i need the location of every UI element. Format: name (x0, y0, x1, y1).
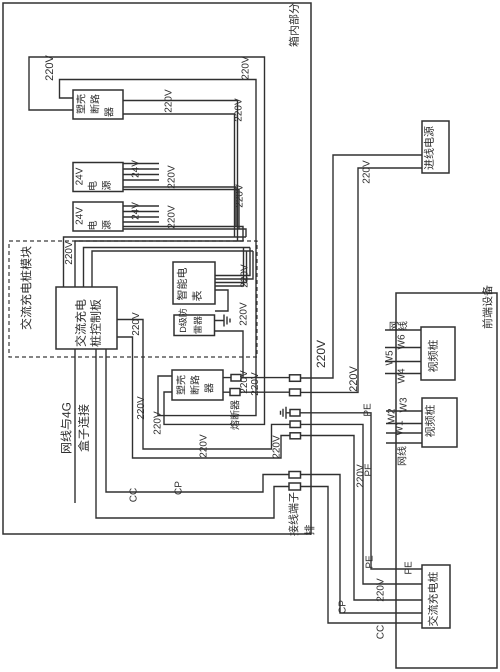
wire T1 to incoming supply (301, 155, 423, 378)
svg-text:W5: W5 (385, 350, 396, 365)
svg-text:220V: 220V (136, 396, 147, 420)
svg-text:网线与4G: 网线与4G (60, 402, 74, 454)
svg-text:24V: 24V (75, 207, 86, 225)
svg-text:塑壳: 塑壳 (76, 94, 88, 114)
24V supply PSU2 (73, 202, 123, 231)
video pile VP2 stubs (386, 411, 422, 443)
front-end equipment box 前端设备 (396, 293, 497, 668)
controller CC wire via T7 (96, 349, 289, 518)
svg-text:220V: 220V (167, 165, 178, 189)
svg-text:电: 电 (87, 221, 99, 231)
svg-text:交流充电桩模块: 交流充电桩模块 (20, 246, 34, 330)
enclosure box 箱内部分 (3, 3, 311, 534)
svg-text:220V: 220V (348, 365, 360, 391)
svg-text:220V: 220V (362, 160, 373, 184)
PSU2 24V output stubs (123, 206, 159, 222)
distribution bundle to controller (64, 237, 247, 287)
svg-text:220V: 220V (250, 372, 261, 396)
controller CP wire via T6 (106, 349, 289, 492)
CB2 to fuse F2 to terminal T2 (223, 391, 290, 393)
PSU1 24V output stubs (123, 164, 159, 181)
svg-text:220V: 220V (241, 56, 252, 80)
svg-text:220V: 220V (376, 578, 387, 602)
svg-text:器: 器 (105, 107, 116, 117)
surge arrester D级防雷器 (174, 315, 215, 336)
svg-text:220V: 220V (272, 435, 283, 459)
svg-text:220V: 220V (64, 241, 75, 265)
svg-text:220V: 220V (167, 205, 178, 229)
controller 220V rail B to T5 (117, 337, 290, 458)
fuse F2 (230, 389, 240, 396)
svg-text:CC: CC (376, 625, 387, 639)
svg-text:220V: 220V (239, 370, 250, 394)
terminal T4 (290, 421, 301, 428)
meter to arrester link (215, 290, 228, 311)
breaker CB1 塑壳断路器 (73, 90, 123, 119)
fuse F1 (231, 375, 241, 382)
terminal T1 (290, 375, 301, 382)
svg-text:进线电源: 进线电源 (423, 126, 436, 170)
arrester ground (215, 315, 230, 327)
wire T2 to incoming supply (301, 168, 423, 392)
wire CB1 output B (123, 114, 235, 237)
video pile VP1 stubs (385, 330, 421, 374)
svg-text:220V: 220V (164, 89, 175, 113)
video pile VP2 视频桩 (422, 398, 457, 447)
terminal T7 (289, 483, 301, 490)
svg-text:220V: 220V (234, 98, 245, 122)
smart meter 智能电表 (173, 262, 215, 304)
svg-text:220V: 220V (131, 312, 142, 336)
controller board 交流充电桩控制板 (56, 287, 117, 349)
svg-text:网线: 网线 (397, 446, 409, 466)
svg-text:220V: 220V (199, 434, 210, 458)
svg-text:器: 器 (205, 383, 216, 393)
terminal T5 (290, 433, 301, 439)
svg-text:源: 源 (101, 181, 113, 191)
svg-text:视频桩: 视频桩 (424, 405, 437, 438)
svg-text:熔断器: 熔断器 (230, 400, 242, 430)
svg-text:CC: CC (129, 488, 140, 502)
svg-text:220V: 220V (356, 464, 367, 488)
svg-text:交流充电: 交流充电 (74, 299, 88, 347)
svg-text:接线端子: 接线端子 (288, 492, 301, 536)
video pile VP1 视频桩 (421, 327, 455, 380)
svg-text:排: 排 (304, 525, 317, 536)
svg-text:PE: PE (365, 555, 376, 569)
svg-text:PE: PE (404, 561, 415, 575)
controller 220V rail A to T4 (117, 320, 290, 450)
svg-text:D级防: D级防 (178, 308, 188, 333)
svg-text:表: 表 (191, 291, 204, 302)
wire T4 to pile 220V (301, 424, 423, 584)
svg-text:雷器: 雷器 (193, 316, 203, 334)
svg-text:W3: W3 (399, 397, 410, 412)
wire CB1 input A loop (29, 57, 265, 424)
meter feed wires (215, 248, 250, 276)
svg-text:源: 源 (101, 220, 113, 230)
svg-text:PE: PE (363, 403, 374, 417)
terminal T2 (290, 389, 301, 396)
CB2 to fuse F1 to terminal T1 (223, 377, 290, 379)
24V supply PSU1 (73, 163, 123, 192)
wire T5 to pile 220V (301, 436, 423, 601)
breaker CB2 塑壳断路器 (172, 370, 223, 400)
svg-text:220V: 220V (314, 340, 328, 368)
svg-text:视频桩: 视频桩 (427, 340, 440, 373)
svg-text:交流充电桩: 交流充电桩 (427, 572, 440, 627)
svg-text:CP: CP (174, 481, 185, 495)
svg-text:220V: 220V (235, 184, 246, 208)
svg-text:220V: 220V (44, 54, 56, 80)
incoming supply 进线电源 (422, 121, 449, 173)
svg-text:线: 线 (398, 321, 410, 331)
svg-text:桩控制板: 桩控制板 (89, 299, 103, 347)
svg-text:220V: 220V (153, 411, 164, 435)
svg-text:24V: 24V (75, 167, 86, 185)
svg-text:W1: W1 (395, 420, 406, 435)
svg-text:前端设备: 前端设备 (482, 285, 495, 329)
PSU2 220V feed pair (123, 227, 243, 242)
svg-text:智能电: 智能电 (176, 268, 189, 301)
arrester output (215, 331, 243, 378)
PSU1 220V feed pair (123, 187, 236, 227)
AC charging pile 交流充电桩 (422, 565, 450, 628)
network 4G wire (74, 349, 76, 503)
svg-text:箱内部分: 箱内部分 (288, 3, 301, 47)
svg-text:220V: 220V (239, 302, 250, 326)
svg-text:CP: CP (338, 600, 349, 614)
wire T3 PE to pile (300, 413, 422, 569)
svg-text:W6: W6 (397, 334, 408, 349)
svg-text:盒子连接: 盒子连接 (77, 404, 91, 452)
svg-text:电: 电 (87, 181, 99, 191)
svg-text:220V: 220V (240, 264, 251, 288)
svg-text:断路: 断路 (190, 375, 202, 395)
terminal T3 (290, 410, 300, 417)
wire CB1 output A (123, 101, 238, 242)
svg-text:断路: 断路 (90, 94, 102, 114)
svg-text:24V: 24V (131, 202, 142, 220)
ground at terminal T3 (281, 407, 291, 419)
wire CB1 input B loop (60, 80, 257, 416)
terminal T6 (289, 472, 301, 479)
dashed module boundary 交流充电桩模块 (9, 241, 257, 357)
svg-text:24V: 24V (131, 160, 142, 178)
svg-text:塑壳: 塑壳 (176, 375, 188, 395)
svg-text:W4: W4 (397, 368, 408, 383)
